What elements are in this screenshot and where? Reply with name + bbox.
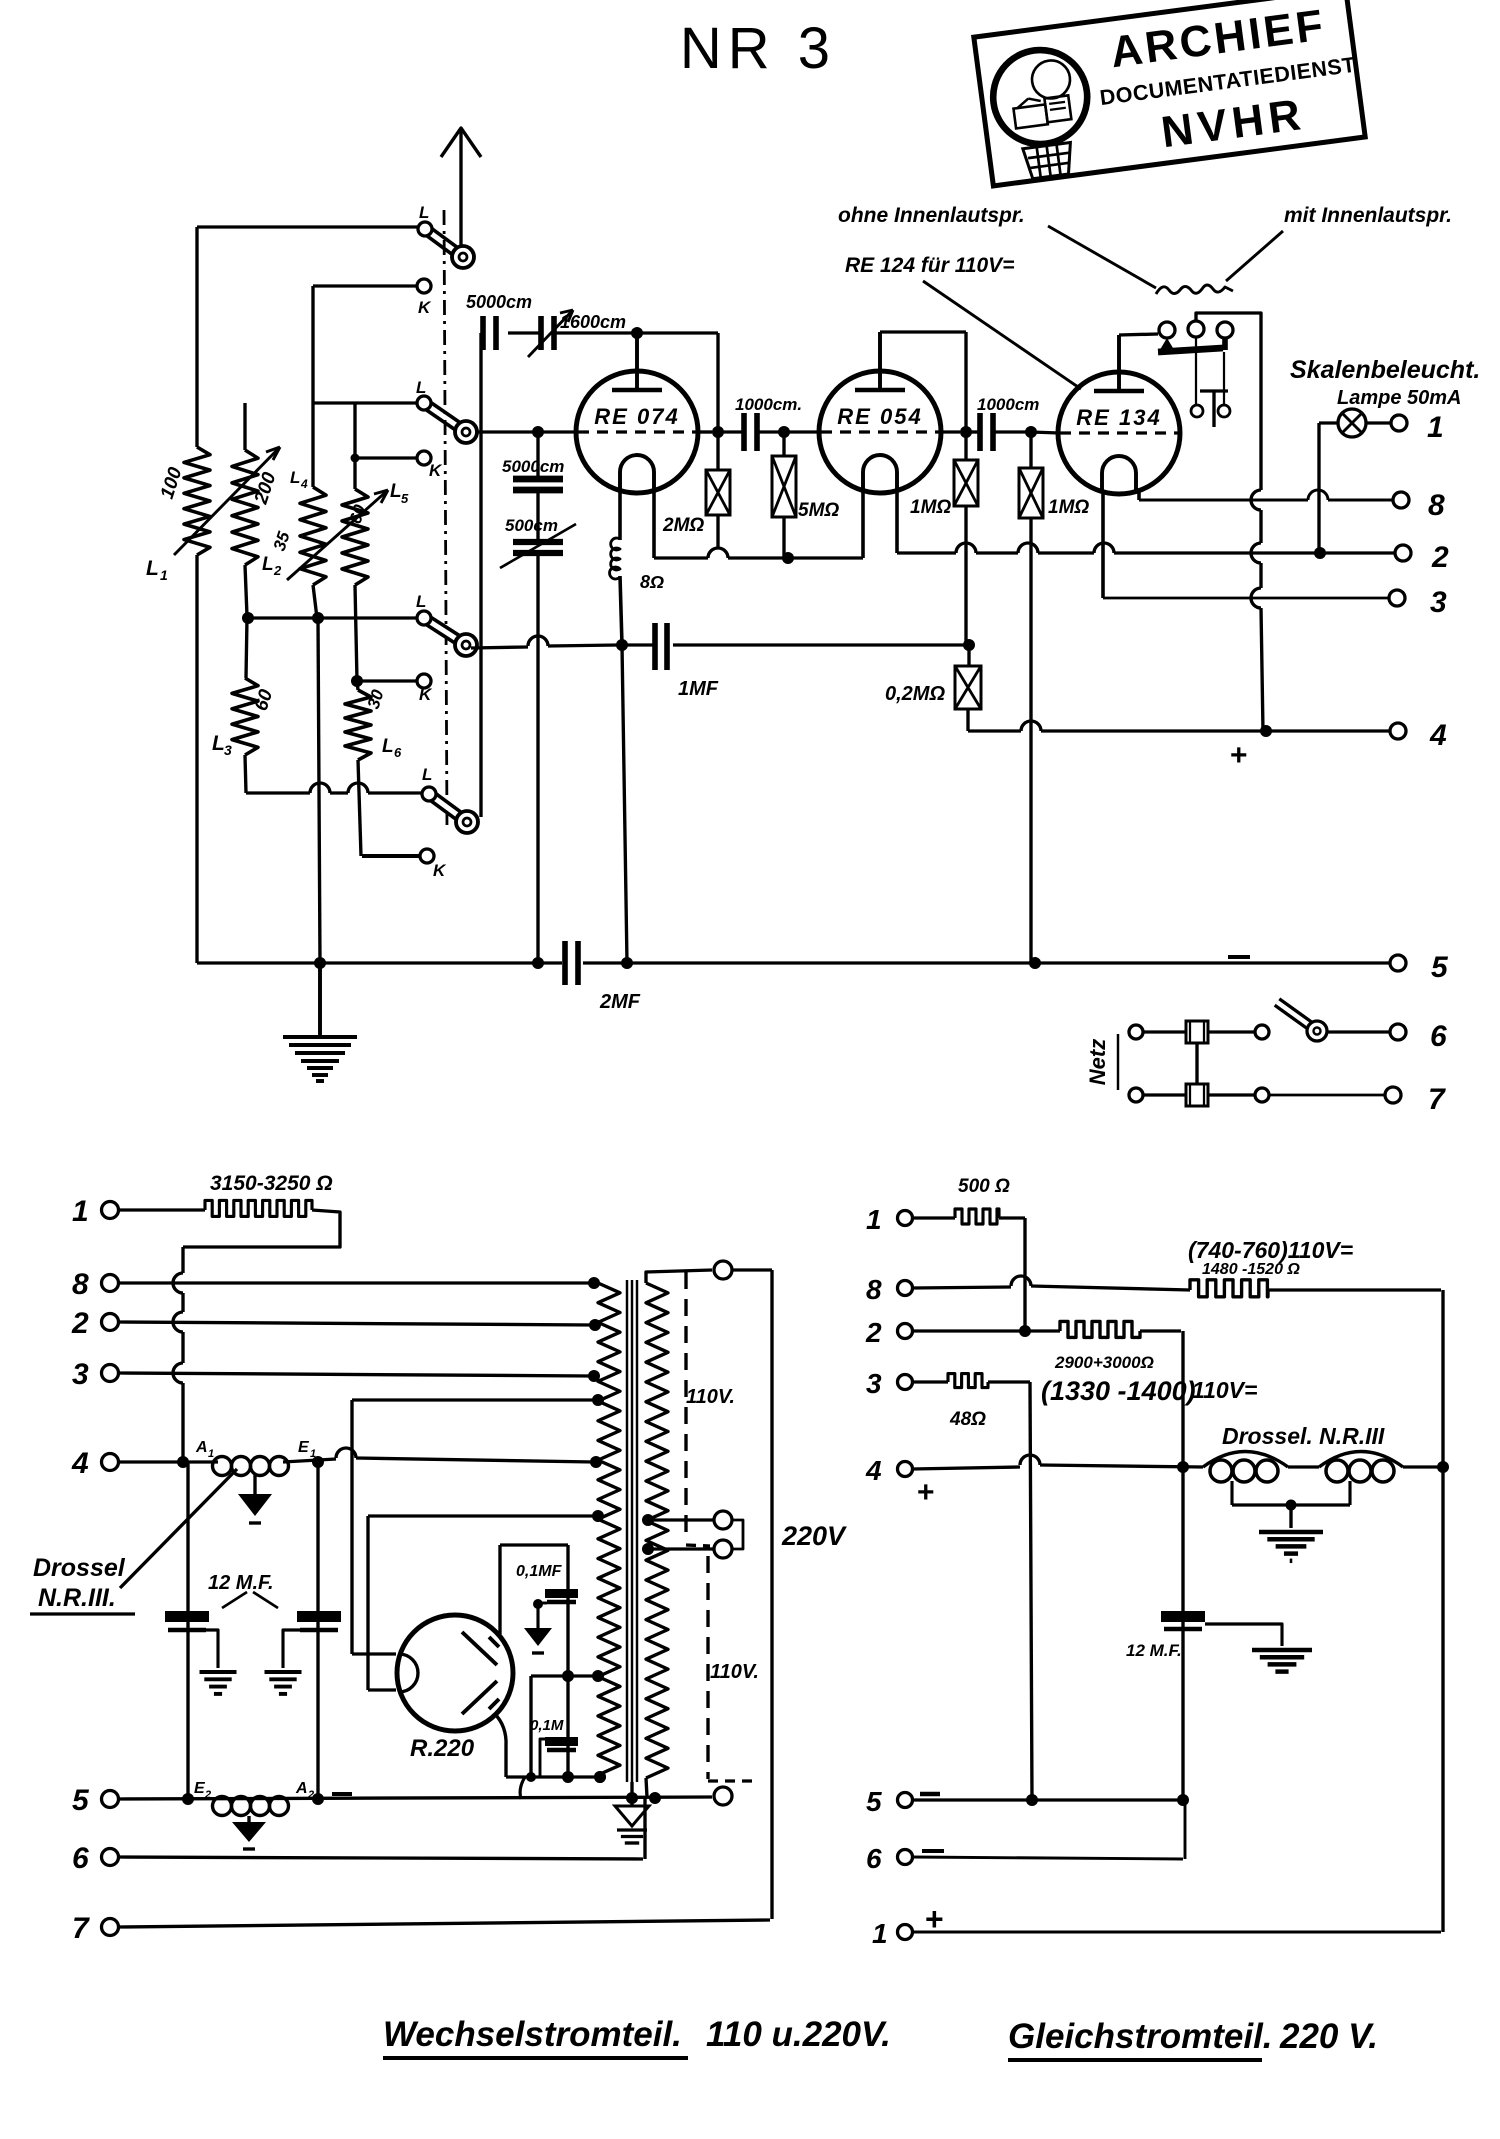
svg-text:1MΩ: 1MΩ bbox=[1048, 497, 1089, 518]
svg-text:A: A bbox=[195, 1439, 208, 1456]
svg-text:0,2MΩ: 0,2MΩ bbox=[885, 683, 945, 705]
svg-text:1MΩ: 1MΩ bbox=[910, 497, 951, 518]
svg-text:1: 1 bbox=[866, 1204, 882, 1235]
svg-text:Wechselstromteil.: Wechselstromteil. bbox=[383, 2015, 682, 2054]
svg-text:ohne Innenlautspr.: ohne Innenlautspr. bbox=[838, 204, 1025, 227]
svg-text:2: 2 bbox=[273, 563, 282, 578]
svg-text:L: L bbox=[290, 468, 300, 487]
svg-text:110 u.220V.: 110 u.220V. bbox=[706, 2015, 891, 2054]
svg-text:2MΩ: 2MΩ bbox=[662, 515, 704, 536]
svg-text:Gleichstromteil.: Gleichstromteil. bbox=[1008, 2017, 1273, 2056]
svg-text:L: L bbox=[416, 592, 426, 611]
svg-text:8: 8 bbox=[1428, 489, 1445, 522]
svg-text:3: 3 bbox=[866, 1368, 882, 1399]
svg-text:Drossel. N.R.III: Drossel. N.R.III bbox=[1222, 1423, 1385, 1449]
svg-text:6: 6 bbox=[394, 745, 402, 760]
svg-text:110V=: 110V= bbox=[1192, 1377, 1257, 1403]
svg-text:2: 2 bbox=[71, 1307, 89, 1340]
svg-text:8Ω: 8Ω bbox=[640, 572, 664, 592]
svg-text:5: 5 bbox=[72, 1784, 90, 1817]
svg-text:4: 4 bbox=[300, 477, 308, 491]
svg-text:1MF: 1MF bbox=[678, 678, 719, 700]
svg-text:RE 074: RE 074 bbox=[594, 404, 679, 429]
svg-text:2MF: 2MF bbox=[599, 991, 641, 1013]
svg-text:1000cm.: 1000cm. bbox=[735, 395, 802, 414]
svg-text:5000cm: 5000cm bbox=[466, 292, 532, 312]
svg-text:(740-760)110V=: (740-760)110V= bbox=[1188, 1237, 1353, 1263]
svg-text:1: 1 bbox=[160, 567, 168, 583]
svg-text:3150-3250 Ω: 3150-3250 Ω bbox=[210, 1172, 333, 1195]
svg-text:R.220: R.220 bbox=[410, 1735, 475, 1762]
svg-text:RE 134: RE 134 bbox=[1076, 405, 1161, 430]
svg-text:110V.: 110V. bbox=[686, 1386, 735, 1408]
svg-text:0,1MF: 0,1MF bbox=[516, 1563, 563, 1580]
svg-text:5: 5 bbox=[401, 491, 409, 506]
svg-text:K: K bbox=[418, 298, 432, 317]
svg-text:K: K bbox=[419, 685, 433, 704]
svg-text:L: L bbox=[212, 732, 225, 755]
svg-text:7: 7 bbox=[72, 1912, 90, 1945]
svg-text:L: L bbox=[390, 481, 402, 502]
svg-text:0,1M: 0,1M bbox=[530, 1717, 564, 1734]
svg-text:8: 8 bbox=[866, 1274, 882, 1305]
svg-text:L: L bbox=[419, 203, 429, 222]
svg-text:5MΩ: 5MΩ bbox=[798, 500, 839, 521]
svg-text:500 Ω: 500 Ω bbox=[958, 1176, 1010, 1197]
svg-text:3: 3 bbox=[1430, 586, 1447, 619]
svg-text:N.R.III.: N.R.III. bbox=[38, 1584, 116, 1612]
svg-text:Drossel: Drossel bbox=[33, 1554, 126, 1582]
svg-text:L: L bbox=[146, 557, 159, 580]
svg-text:2: 2 bbox=[204, 1789, 211, 1801]
svg-text:NR 3: NR 3 bbox=[680, 16, 836, 81]
svg-text:3: 3 bbox=[72, 1358, 89, 1391]
svg-text:RE 124 für 110V=: RE 124 für 110V= bbox=[845, 254, 1014, 277]
svg-text:+: + bbox=[917, 1476, 935, 1509]
svg-text:Netz: Netz bbox=[1085, 1039, 1110, 1085]
svg-text:L: L bbox=[416, 378, 426, 397]
svg-text:3: 3 bbox=[224, 742, 232, 758]
svg-text:K: K bbox=[429, 461, 443, 480]
svg-text:A: A bbox=[295, 1780, 308, 1797]
svg-text:110V.: 110V. bbox=[710, 1661, 759, 1683]
svg-text:4: 4 bbox=[1429, 719, 1447, 752]
svg-text:L: L bbox=[422, 765, 432, 784]
svg-text:1: 1 bbox=[872, 1918, 888, 1949]
svg-text:1: 1 bbox=[72, 1195, 89, 1228]
svg-text:5000cm: 5000cm bbox=[502, 457, 564, 476]
svg-text:7: 7 bbox=[1428, 1083, 1446, 1116]
svg-text:1000cm: 1000cm bbox=[977, 395, 1039, 414]
svg-text:48Ω: 48Ω bbox=[949, 1409, 986, 1430]
svg-text:5: 5 bbox=[866, 1786, 882, 1817]
svg-text:6: 6 bbox=[1430, 1020, 1447, 1053]
svg-text:1600cm: 1600cm bbox=[560, 312, 626, 332]
svg-text:L: L bbox=[262, 554, 274, 575]
svg-text:1: 1 bbox=[208, 1448, 214, 1460]
svg-text:6: 6 bbox=[866, 1843, 882, 1874]
svg-text:(1330 -1400): (1330 -1400) bbox=[1041, 1376, 1196, 1406]
svg-text:Lampe 50mA: Lampe 50mA bbox=[1337, 387, 1462, 409]
svg-text:6: 6 bbox=[72, 1842, 89, 1875]
svg-text:12 M.F.: 12 M.F. bbox=[208, 1572, 274, 1594]
svg-text:+: + bbox=[1230, 739, 1248, 772]
svg-text:2: 2 bbox=[307, 1789, 314, 1801]
svg-text:mit Innenlautspr.: mit Innenlautspr. bbox=[1284, 204, 1452, 227]
svg-text:2900+3000Ω: 2900+3000Ω bbox=[1054, 1353, 1154, 1372]
svg-text:220 V.: 220 V. bbox=[1279, 2017, 1378, 2056]
svg-text:4: 4 bbox=[865, 1455, 882, 1486]
svg-text:Skalenbeleucht.: Skalenbeleucht. bbox=[1290, 356, 1480, 384]
svg-text:500cm: 500cm bbox=[505, 516, 558, 535]
svg-text:2: 2 bbox=[865, 1317, 882, 1348]
svg-text:1: 1 bbox=[1427, 411, 1444, 444]
svg-text:4: 4 bbox=[71, 1447, 89, 1480]
svg-text:L: L bbox=[382, 736, 394, 757]
svg-text:8: 8 bbox=[72, 1268, 89, 1301]
svg-text:12 M.F.: 12 M.F. bbox=[1126, 1641, 1182, 1660]
svg-text:2: 2 bbox=[1431, 541, 1449, 574]
svg-text:RE 054: RE 054 bbox=[837, 404, 922, 429]
svg-text:E: E bbox=[298, 1439, 310, 1456]
svg-text:1480 -1520 Ω: 1480 -1520 Ω bbox=[1202, 1261, 1300, 1278]
svg-text:1: 1 bbox=[310, 1448, 316, 1460]
svg-text:5: 5 bbox=[1431, 951, 1449, 984]
svg-text:220V: 220V bbox=[781, 1521, 847, 1551]
svg-text:K: K bbox=[433, 861, 447, 880]
